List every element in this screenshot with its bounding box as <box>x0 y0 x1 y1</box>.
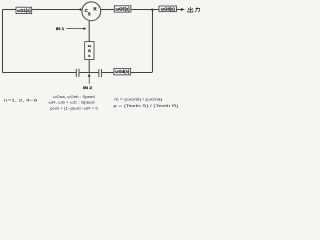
svg-text:S: S <box>88 12 91 17</box>
wire left vertical feedback <box>2 10 4 73</box>
wire bottom feedback segment D <box>131 72 152 74</box>
svg-text:ωR, ωS + ωC : Speed: ωR, ωS + ωC : Speed <box>49 99 95 104</box>
junction dot at feedback tap <box>151 9 153 11</box>
wire top-left corner into block G1 <box>3 9 17 11</box>
block G6 <box>159 6 177 12</box>
svg-text:ωG6(s): ωG6(s) <box>161 6 176 11</box>
background paper <box>0 0 202 120</box>
block G4 <box>114 68 131 75</box>
capacitor-break symbol left bar 1 <box>75 69 77 77</box>
svg-text:IN 2: IN 2 <box>83 85 93 90</box>
svg-text:ωGna, ωGnb : Speed: ωGna, ωGnb : Speed <box>53 94 94 99</box>
box G2 (vertical) <box>85 42 94 60</box>
output arrowhead <box>181 8 185 11</box>
svg-text:IN 1: IN 1 <box>56 26 65 31</box>
wire block G6 to output arrow <box>177 9 182 11</box>
svg-text:m = (ωGnb) / (ωGna): m = (ωGnb) / (ωGna) <box>114 97 163 102</box>
svg-text:ρ = (Teeth S) / (Teeth R): ρ = (Teeth S) / (Teeth R) <box>113 103 179 108</box>
svg-text:n=1, 2, 4−6: n=1, 2, 4−6 <box>4 98 39 103</box>
output kanji 力 <box>195 7 200 12</box>
svg-text:ωG4(s): ωG4(s) <box>115 69 130 74</box>
annotation arrow IN 2 (up into junction) <box>88 77 90 84</box>
capacitor-break symbol right bar 2 <box>101 69 103 77</box>
wire block G5 to block G6 <box>131 9 159 11</box>
wire box G2 bottom to feedback line <box>88 60 90 73</box>
wire bottom feedback segment A <box>3 72 76 74</box>
wire circle to block G5 <box>101 9 115 11</box>
svg-text:ρωS + (1−ρ)ωC−ωR = 0: ρωS + (1−ρ)ωC−ωR = 0 <box>50 106 99 111</box>
svg-text:s: s <box>88 54 90 58</box>
wire block G1 to circle <box>32 9 81 11</box>
arrowhead into planetary circle <box>80 8 83 11</box>
wire right vertical feedback <box>152 10 154 73</box>
svg-text:ωG5(s): ωG5(s) <box>116 7 131 12</box>
wire circle bottom drop to box G2 <box>88 21 90 42</box>
planetary gear circle <box>82 2 101 21</box>
svg-text:G: G <box>88 49 91 53</box>
output kanji 出 <box>188 7 193 12</box>
block G5 <box>114 6 131 12</box>
svg-text:ωG1(s): ωG1(s) <box>17 8 31 13</box>
wire bottom feedback segment C <box>102 72 114 74</box>
annotation arrow IN 1 <box>67 28 84 30</box>
capacitor-break symbol left bar 2 <box>78 69 80 77</box>
block G1 <box>16 7 32 13</box>
capacitor-break symbol right bar 1 <box>98 69 100 77</box>
wire bottom feedback segment B <box>79 72 98 74</box>
